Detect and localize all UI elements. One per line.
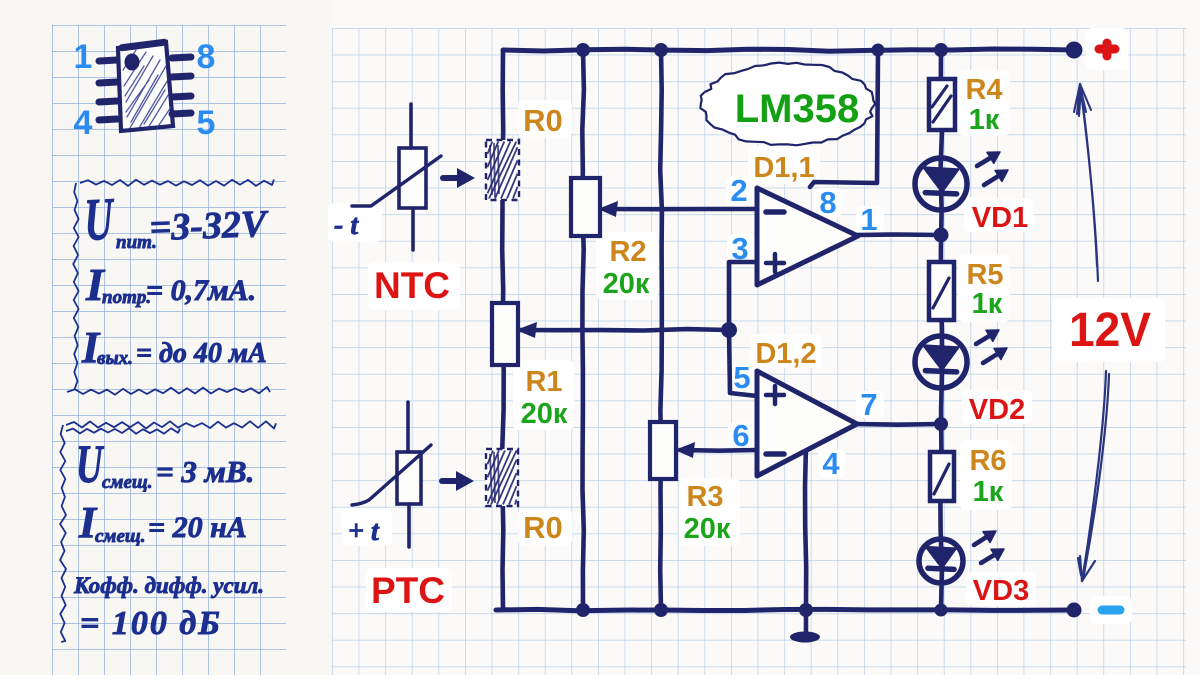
svg-text:= 20 нА: = 20 нА xyxy=(148,511,247,544)
svg-text:вых.: вых. xyxy=(97,348,133,369)
svg-text:VD3: VD3 xyxy=(973,575,1029,607)
svg-text:4: 4 xyxy=(74,104,93,142)
R0 top dashed box xyxy=(486,140,519,200)
resistor R6 body xyxy=(930,452,954,501)
wire pin 8 to top rail xyxy=(810,52,878,187)
note: U smesch = 3 mV xyxy=(76,435,254,495)
svg-text:VD1: VD1 xyxy=(972,202,1028,234)
junction dot bottom rail 2 xyxy=(654,603,668,617)
svg-text:4: 4 xyxy=(822,446,840,481)
LED VD3 xyxy=(919,539,963,583)
minus terminal xyxy=(1102,606,1120,615)
svg-text:12V: 12V xyxy=(1069,304,1151,357)
op-amp D1,1 triangle xyxy=(757,188,858,285)
terminal dot plus xyxy=(1066,42,1083,59)
op-amp D1,2 triangle xyxy=(757,371,857,476)
junction dot top rail 1 xyxy=(576,43,590,57)
note: I vyh = do 40 mA xyxy=(81,323,267,372)
svg-text:смещ.: смещ. xyxy=(102,472,152,493)
svg-text:= 0,7мА.: = 0,7мА. xyxy=(146,274,256,307)
svg-text:3: 3 xyxy=(731,231,748,266)
wire pin 7 output xyxy=(855,422,941,427)
IC pins xyxy=(99,57,191,120)
svg-text:VD2: VD2 xyxy=(969,394,1025,426)
IC pin-1 dot xyxy=(125,54,140,71)
svg-text:PTC: PTC xyxy=(371,570,445,611)
svg-text:20к: 20к xyxy=(684,513,731,545)
svg-text:- t: - t xyxy=(334,210,359,241)
svg-text:U: U xyxy=(84,185,116,253)
svg-text:R0: R0 xyxy=(523,103,563,138)
PTC arrow xyxy=(442,478,461,484)
svg-text:= до 40 мА: = до 40 мА xyxy=(136,338,267,369)
wire node A to pin 3 xyxy=(729,262,757,330)
R0 bottom dashed box xyxy=(486,449,518,506)
svg-text:7: 7 xyxy=(860,387,877,422)
wire vertical R2 branch xyxy=(582,50,584,610)
svg-text:8: 8 xyxy=(197,38,216,76)
wire top rail xyxy=(503,49,1074,51)
resistor R4 body xyxy=(929,79,955,130)
svg-text:смещ.: смещ. xyxy=(95,526,145,547)
note: I potr = 0,7mA xyxy=(85,259,256,310)
svg-text:R2: R2 xyxy=(609,236,646,268)
svg-text:R0: R0 xyxy=(523,510,563,545)
svg-text:1: 1 xyxy=(74,38,93,76)
svg-text:= 3 мВ.: = 3 мВ. xyxy=(156,454,254,489)
right page grid xyxy=(332,28,1186,675)
wire R3 wiper to pin 6 xyxy=(680,448,757,453)
svg-text:1к: 1к xyxy=(972,288,1003,320)
junction dot bottom rail 4 xyxy=(935,604,948,617)
svg-text:Кофф. дифф. усил.: Кофф. дифф. усил. xyxy=(73,573,264,598)
LED VD2 xyxy=(915,336,967,388)
wire node A to pin 5 xyxy=(729,330,757,396)
svg-text:R1: R1 xyxy=(525,366,562,398)
svg-text:NTC: NTC xyxy=(374,265,450,306)
junction dot bottom rail 1 xyxy=(576,603,590,617)
svg-text:1: 1 xyxy=(860,202,877,237)
left page tone xyxy=(0,0,332,675)
svg-text:=3-32V: =3-32V xyxy=(149,203,270,249)
wire R1 wiper to node A xyxy=(517,329,729,330)
svg-text:R6: R6 xyxy=(969,445,1006,477)
wire pin 1 output xyxy=(856,232,941,237)
junction dot top rail 3 xyxy=(872,44,885,57)
resistor R5 body xyxy=(929,262,954,320)
R2 wiper arrowhead xyxy=(598,201,618,217)
svg-text:потр.: потр. xyxy=(102,287,151,308)
note: U pit = 3-32V xyxy=(84,185,270,253)
wire R2 wiper to pin 2 xyxy=(604,207,757,212)
svg-text:LM358: LM358 xyxy=(735,87,860,131)
svg-text:20к: 20к xyxy=(521,398,568,430)
PTC thermistor symbol xyxy=(352,402,431,547)
svg-text:= 100 дБ: = 100 дБ xyxy=(80,605,222,642)
svg-text:D1,1: D1,1 xyxy=(753,152,814,184)
svg-text:1к: 1к xyxy=(969,104,1000,136)
svg-text:6: 6 xyxy=(732,418,749,453)
svg-text:R5: R5 xyxy=(966,259,1003,291)
svg-text:+ t: + t xyxy=(348,516,380,547)
label halos xyxy=(368,262,460,310)
node pin1/R5 dot xyxy=(934,228,949,243)
R1 wiper arrowhead xyxy=(516,322,537,338)
R3 wiper arrowhead xyxy=(675,442,695,458)
svg-text:5: 5 xyxy=(733,360,750,395)
potentiometer R3 body xyxy=(650,422,676,479)
wire pin 4 down to rail xyxy=(805,446,806,608)
notes box 1 squiggle border xyxy=(67,180,274,395)
wire left vertical xyxy=(502,50,504,610)
wire vertical LED chain xyxy=(940,50,942,610)
NTC arrow xyxy=(443,175,462,181)
svg-text:8: 8 xyxy=(819,185,836,220)
svg-text:5: 5 xyxy=(197,104,216,142)
note: I smesch = 20 nA xyxy=(78,498,247,547)
svg-text:2: 2 xyxy=(730,173,747,208)
svg-text:R3: R3 xyxy=(686,481,723,513)
junction dot top rail 2 xyxy=(654,43,668,57)
node pin7/R6 dot xyxy=(934,417,948,431)
potentiometer R1 body xyxy=(492,303,518,365)
LM358 cloud bubble xyxy=(700,63,875,146)
terminal dot minus xyxy=(1067,603,1082,618)
left page grid xyxy=(52,25,286,675)
plus terminal xyxy=(1099,43,1115,56)
junction dot top rail 4 xyxy=(934,43,948,57)
LED VD1 xyxy=(915,158,967,210)
wire vertical R3 branch xyxy=(660,50,662,610)
svg-text:1к: 1к xyxy=(973,476,1004,508)
svg-text:R4: R4 xyxy=(965,74,1002,106)
NTC thermistor symbol xyxy=(352,104,441,250)
IC DIP-8 package drawing xyxy=(118,42,173,131)
notes box 2 squiggle border xyxy=(60,421,276,642)
ground stub xyxy=(804,610,809,632)
potentiometer R2 body xyxy=(571,178,600,236)
svg-text:20к: 20к xyxy=(603,268,650,300)
ground symbol xyxy=(790,632,820,643)
wire bottom rail xyxy=(496,609,1074,610)
up arrow to plus xyxy=(1074,84,1098,281)
node A junction dot xyxy=(721,322,737,338)
down arrow to minus xyxy=(1078,371,1109,581)
junction dot bottom rail 3 xyxy=(799,603,813,617)
svg-text:D1,2: D1,2 xyxy=(755,338,816,370)
svg-text:U: U xyxy=(76,435,105,495)
